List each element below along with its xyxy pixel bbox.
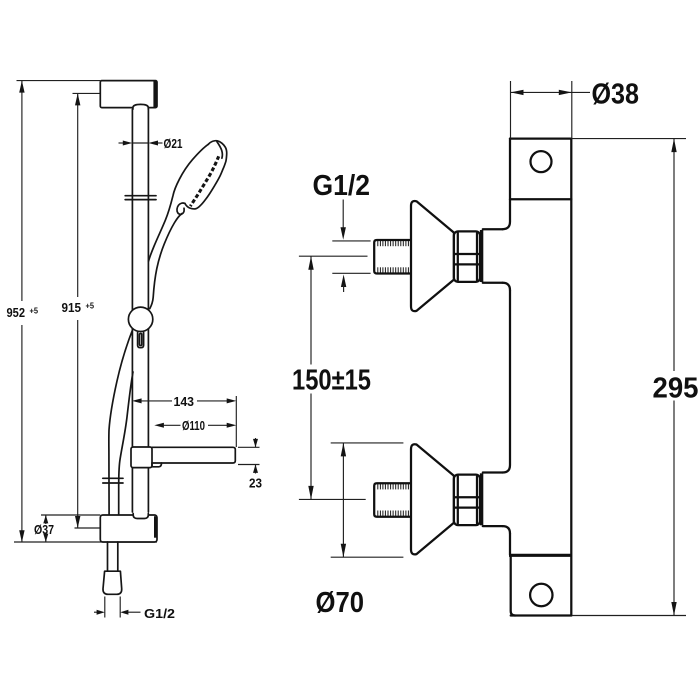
- top mounting bracket: [510, 139, 571, 200]
- shower hose upper curve: [109, 331, 133, 518]
- top inlet hex nut: [454, 231, 480, 282]
- dimension G1/2 bottom: [94, 597, 175, 621]
- svg-text:952: 952: [7, 305, 26, 320]
- bottom mounting bracket: [511, 555, 553, 615]
- svg-text:Ø38: Ø38: [592, 79, 640, 111]
- dimension 915+5 line: [75, 93, 80, 528]
- hand shower tip and spray-face right edge: [185, 141, 227, 209]
- top inlet thread ticks: [378, 241, 409, 273]
- bottom inlet thread ticks: [378, 484, 409, 516]
- rail top collar: [133, 104, 148, 109]
- bottom inlet hex nut: [454, 475, 480, 525]
- dimension 952+5 line: [19, 81, 24, 543]
- bottom bracket separator: [509, 554, 571, 557]
- dimension 952+5 text: [7, 305, 39, 320]
- rail bottom cap: [133, 514, 148, 519]
- dimension Ø110: [154, 418, 236, 433]
- dimension 295: [572, 139, 699, 616]
- svg-text:143: 143: [174, 394, 195, 409]
- top wall bracket: [100, 81, 157, 108]
- bottom inlet threaded pipe: [374, 483, 410, 517]
- svg-text:G1/2: G1/2: [313, 170, 371, 202]
- handle right edge: [150, 214, 182, 309]
- svg-text:Ø110: Ø110: [182, 418, 205, 433]
- hand shower back edge + handle left edge: [149, 144, 209, 261]
- dimension Ø21: [119, 136, 183, 151]
- extension lines bottom: [14, 528, 157, 542]
- svg-text:Ø37: Ø37: [34, 522, 54, 537]
- dimension Ø38: [511, 79, 640, 139]
- slider knob: [128, 307, 152, 331]
- bottom inlet boss: [482, 473, 510, 534]
- label G1/2 with leader: [313, 170, 371, 292]
- soap dish clamp: [131, 447, 152, 468]
- dimension 23: [238, 438, 262, 490]
- body left edge middle: [503, 290, 510, 472]
- hose below bracket: [108, 542, 118, 571]
- svg-text:+5: +5: [86, 301, 95, 311]
- svg-text:915: 915: [62, 300, 82, 315]
- svg-text:Ø70: Ø70: [316, 587, 365, 619]
- top inlet threaded pipe: [374, 240, 410, 274]
- extension lines top: [17, 81, 101, 94]
- svg-text:295: 295: [653, 373, 699, 405]
- bottom wall bracket: [100, 515, 157, 542]
- top inlet boss: [482, 229, 510, 290]
- svg-text:150±15: 150±15: [292, 364, 371, 396]
- hose joint ticks: [103, 478, 123, 483]
- dimension 915+5 text: [62, 300, 95, 315]
- dimension 150±15: [292, 256, 371, 499]
- hose end cone G1/2: [103, 571, 122, 594]
- extension line right of bar: [235, 396, 237, 447]
- svg-text:G1/2: G1/2: [144, 606, 175, 621]
- valve body bar: [510, 139, 571, 616]
- bottom inlet escutcheon cone: [411, 444, 454, 554]
- soap dish bar: [152, 447, 235, 467]
- svg-text:23: 23: [249, 475, 262, 490]
- spray nozzle marks: [190, 156, 218, 206]
- svg-text:+5: +5: [30, 306, 39, 316]
- body left edge lower: [509, 534, 511, 555]
- slider lever tab: [138, 333, 144, 348]
- body left edge upper: [503, 199, 510, 229]
- dimension 143: [132, 394, 236, 409]
- rail tube: [132, 109, 148, 512]
- slider stop rings on rail: [125, 196, 156, 200]
- svg-text:Ø21: Ø21: [164, 136, 183, 151]
- hand shower face plate line: [217, 142, 223, 159]
- pause button bump: [177, 203, 185, 214]
- top inlet escutcheon cone: [411, 201, 454, 311]
- dimension Ø70: [316, 443, 404, 619]
- dimension Ø37: [34, 515, 100, 542]
